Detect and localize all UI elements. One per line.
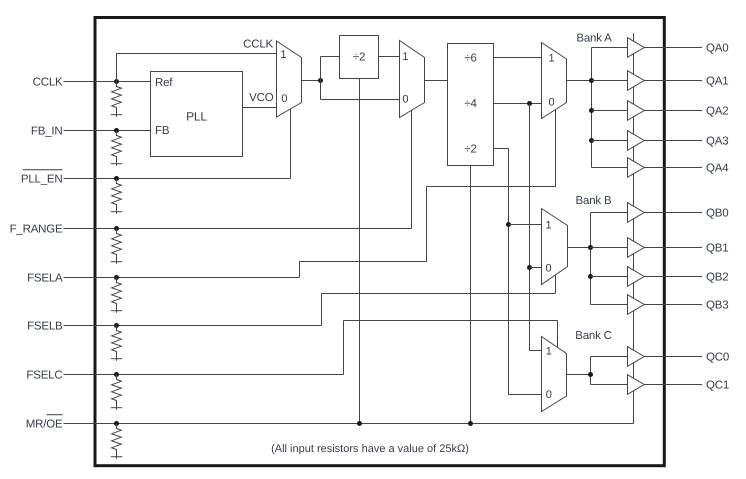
wire CCLK input xyxy=(64,81,151,83)
node Bank B bus junction xyxy=(588,274,593,279)
wire mux U3 output to divider D2 xyxy=(425,80,448,82)
node junction D2 reset at MR/OE xyxy=(468,421,473,426)
svg-text:Ref: Ref xyxy=(155,77,173,89)
wire F_RANGE select to mux U3 xyxy=(411,110,413,228)
node Bank B bus junction xyxy=(588,245,593,250)
wire to buffer QB2 input xyxy=(591,276,628,278)
ground symbol for CCLK resistor xyxy=(111,114,122,116)
wire FSELC select route to mux U6 xyxy=(343,321,345,375)
input pin label PLL_EN xyxy=(21,170,63,186)
outer block-diagram frame xyxy=(95,18,664,466)
svg-text:QA2: QA2 xyxy=(706,106,728,118)
wire to buffer QC0 input xyxy=(591,356,628,358)
wire Bank A distribution bus xyxy=(591,48,593,168)
svg-text:1: 1 xyxy=(546,345,552,357)
mux U5 (Bank B select) xyxy=(542,209,568,285)
node junction on CCLK input xyxy=(114,79,119,84)
resistor 25k on MR/OE input xyxy=(112,424,122,459)
svg-text:CCLK: CCLK xyxy=(243,39,273,51)
wire mux U2 output node xyxy=(302,80,321,82)
resistor 25k on PLL_EN input xyxy=(112,179,122,214)
wire MR/OE input xyxy=(64,423,634,425)
node Bank A bus junction xyxy=(589,108,594,113)
wire QA2 output xyxy=(644,110,702,112)
svg-text:CCLK: CCLK xyxy=(33,77,63,89)
svg-text:÷6: ÷6 xyxy=(464,53,476,65)
svg-text:0: 0 xyxy=(281,93,287,105)
wire to buffer QA0 input xyxy=(592,47,628,49)
wire divide-by-2 to mux U5 input 1 xyxy=(509,224,542,226)
wire divide-by-2 output net xyxy=(494,148,509,150)
svg-text:1: 1 xyxy=(549,53,555,65)
buffer QA4 xyxy=(628,158,645,178)
ground symbol for FSELC resistor xyxy=(111,407,122,409)
wire to buffer QB0 input xyxy=(591,212,628,214)
wire QB0 output xyxy=(644,212,702,214)
ground symbol for F_RANGE resistor xyxy=(111,261,122,263)
svg-text:1: 1 xyxy=(402,51,408,63)
wire VCO output of PLL to mux U2 input 0 xyxy=(243,107,277,109)
resistor 25k on FB_IN input xyxy=(112,131,122,166)
wire mux U5 output to Bank B xyxy=(568,247,591,249)
wire mux U6 output to Bank C xyxy=(567,374,591,376)
wire Bank C distribution bus xyxy=(590,357,592,385)
svg-text:MR/OE: MR/OE xyxy=(26,419,63,431)
wire divide-by-6 output to mux U4 input 1 xyxy=(494,57,542,59)
wire Bank B distribution bus xyxy=(590,213,592,305)
svg-text:FB_IN: FB_IN xyxy=(31,126,63,138)
svg-text:÷2: ÷2 xyxy=(353,52,365,64)
svg-text:VCO: VCO xyxy=(249,92,274,104)
svg-text:QC1: QC1 xyxy=(706,380,729,392)
mux U4 (Bank A select) xyxy=(542,43,567,119)
svg-text:FSELC: FSELC xyxy=(26,370,62,382)
svg-text:0: 0 xyxy=(549,96,555,108)
svg-text:÷2: ÷2 xyxy=(464,144,476,156)
svg-text:PLL_EN: PLL_EN xyxy=(21,174,63,186)
node junction on FSELA input xyxy=(114,275,119,280)
wire to buffer QB1 input xyxy=(591,247,628,249)
svg-text:1: 1 xyxy=(545,220,551,232)
wire QA1 output xyxy=(644,80,702,82)
svg-text:0: 0 xyxy=(546,389,552,401)
ground symbol for MR/OE resistor xyxy=(111,456,122,458)
node junction on FSELB input xyxy=(114,323,119,328)
wire to buffer QA1 input xyxy=(592,80,628,82)
buffer QB3 xyxy=(628,295,645,315)
wire PLL_EN input xyxy=(64,178,291,180)
wire D2 reset line to MR/OE net xyxy=(470,166,472,424)
wire QB2 output xyxy=(644,276,702,278)
node junction divide-by-4 at mux U5 input 0 xyxy=(527,265,532,270)
input pin label MR/OE xyxy=(26,415,63,431)
svg-text:QB3: QB3 xyxy=(706,300,728,312)
ground symbol for FSELB resistor xyxy=(111,358,122,360)
wire PLL_EN select to mux U2 xyxy=(290,109,292,179)
resistor 25k on F_RANGE input xyxy=(112,229,122,264)
wire FSELC input xyxy=(64,374,344,376)
wire QA0 output xyxy=(644,47,702,49)
svg-text:0: 0 xyxy=(545,262,551,274)
wire CCLK to mux U2 input 1 xyxy=(116,54,118,82)
ground symbol for FB_IN resistor xyxy=(111,163,122,165)
svg-text:(All input resistors have a va: (All input resistors have a value of 25k… xyxy=(271,443,469,455)
buffer QA1 xyxy=(628,71,645,91)
svg-text:0: 0 xyxy=(402,94,408,106)
wire QB3 output xyxy=(644,304,702,306)
wire divide-by-4 output net xyxy=(494,103,542,105)
wire QA3 output xyxy=(644,140,702,142)
wire D1 reset line to MR/OE net xyxy=(359,79,361,424)
svg-text:Bank C: Bank C xyxy=(575,330,612,342)
resistor 25k on FSELB input xyxy=(112,326,122,361)
wire to buffer QA2 input xyxy=(592,110,628,112)
mux U3 (F_RANGE select) xyxy=(400,41,425,118)
wire FSELA select route to mux U4 xyxy=(299,262,301,278)
node junction D1 reset at MR/OE xyxy=(357,421,362,426)
svg-text:FSELA: FSELA xyxy=(27,273,63,285)
wire to divider D1 input xyxy=(321,56,340,58)
node junction on FSELC input xyxy=(114,372,119,377)
svg-text:FB: FB xyxy=(155,125,170,137)
wire FSELA input xyxy=(64,277,300,279)
buffer QB1 xyxy=(628,238,645,258)
node Bank C bus junction xyxy=(588,372,593,377)
node junction on FB_IN input xyxy=(114,128,119,133)
wire F_RANGE input xyxy=(64,228,412,230)
buffer QA2 xyxy=(628,101,645,121)
buffer QC0 xyxy=(628,347,645,367)
svg-text:QA3: QA3 xyxy=(706,136,728,148)
wire divide-by-2 to mux U6 input 0 xyxy=(509,394,542,396)
buffer QA0 xyxy=(628,38,645,58)
buffer QC1 xyxy=(628,375,645,395)
ground symbol for FSELA resistor xyxy=(111,310,122,312)
buffer QB2 xyxy=(628,267,645,287)
wire QB1 output xyxy=(644,247,702,249)
wire QC0 output xyxy=(644,356,702,358)
resistor 25k on FSELA input xyxy=(112,278,122,313)
wire to buffer QB3 input xyxy=(591,304,628,306)
node junction on PLL_EN input xyxy=(114,176,119,181)
svg-text:÷4: ÷4 xyxy=(464,98,477,110)
wire FSELB select route to mux U5 xyxy=(321,294,323,326)
svg-text:QB2: QB2 xyxy=(706,272,728,284)
wire bypass to mux U3 input 0 xyxy=(321,99,400,101)
wire FSELB input xyxy=(64,325,322,327)
node junction divide-by-2 at mux U5 input 1 xyxy=(506,222,511,227)
svg-text:FSELB: FSELB xyxy=(27,321,63,333)
wire QA4 output xyxy=(644,167,702,169)
node Bank A bus junction xyxy=(589,138,594,143)
divider D2 (divide by 6 / 4 / 2) xyxy=(448,44,494,166)
svg-text:PLL: PLL xyxy=(186,110,207,124)
node junction on MR/OE input xyxy=(114,421,119,426)
PLL block U1 xyxy=(151,72,243,157)
svg-text:Bank A: Bank A xyxy=(576,33,612,45)
ground symbol for PLL_EN resistor xyxy=(111,211,122,213)
wire to buffer QA3 input xyxy=(592,140,628,142)
node junction divide-by-4 net xyxy=(527,101,532,106)
wire MR/OE enable line to output buffers xyxy=(633,33,635,424)
wire D1 output to mux U3 input 1 xyxy=(379,56,400,58)
node mux U2 output junction xyxy=(318,78,323,83)
svg-text:F_RANGE: F_RANGE xyxy=(10,224,63,236)
resistor 25k on CCLK input xyxy=(112,82,122,117)
mux U2 (PLL bypass select) xyxy=(277,41,302,117)
mux U6 (Bank C select) xyxy=(542,337,567,412)
svg-text:Bank B: Bank B xyxy=(576,195,612,207)
svg-text:QB0: QB0 xyxy=(706,208,728,220)
wire to buffer QC1 input xyxy=(591,384,628,386)
svg-text:1: 1 xyxy=(280,49,286,61)
wire divide-by-4 to mux U6 input 1 xyxy=(530,350,542,352)
divider D1 (divide by 2) xyxy=(340,36,379,79)
svg-text:QA4: QA4 xyxy=(706,163,729,175)
resistor 25k on FSELC input xyxy=(112,375,122,410)
wire FB_IN input xyxy=(64,130,151,132)
svg-text:QC0: QC0 xyxy=(706,352,729,364)
svg-text:QA1: QA1 xyxy=(706,76,728,88)
svg-text:QB1: QB1 xyxy=(706,243,728,255)
node Bank A bus junction xyxy=(589,78,594,83)
wire QC1 output xyxy=(644,384,702,386)
buffer QB0 xyxy=(628,203,645,223)
buffer QA3 xyxy=(628,131,645,151)
node junction on F_RANGE input xyxy=(114,226,119,231)
wire to buffer QA4 input xyxy=(592,167,628,169)
svg-text:QA0: QA0 xyxy=(706,43,728,55)
wire divide-by-4 to mux U5 input 0 xyxy=(530,267,542,269)
wire mux U4 output to Bank A xyxy=(567,80,592,82)
